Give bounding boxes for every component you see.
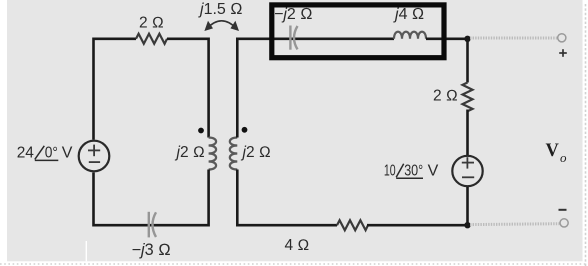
polarity dot (secondary) xyxy=(242,127,248,133)
wire 4ohm resistor to bottom-right node xyxy=(367,224,468,227)
capacitor −j2Ω xyxy=(290,26,297,50)
svg-text:o: o xyxy=(560,150,567,165)
highlight rectangle annotation xyxy=(272,5,444,58)
svg-text:4 Ω: 4 Ω xyxy=(285,237,310,254)
scan artifact white line bottom-left xyxy=(86,241,87,261)
resistor 2Ω (top left) xyxy=(136,34,167,44)
svg-text:30°: 30° xyxy=(404,162,423,179)
svg-text:V: V xyxy=(62,145,73,162)
svg-text:−j2 Ω: −j2 Ω xyxy=(274,6,313,23)
capacitor -j3Ω xyxy=(149,212,156,238)
wire secondary winding bottom to bottom wire xyxy=(237,170,337,226)
wire primary winding bottom to bottom-left corner up to source xyxy=(94,170,209,226)
label 10∠30° V xyxy=(384,162,439,179)
svg-text:j2 Ω: j2 Ω xyxy=(175,144,205,161)
voltage source 24∠0°V circle xyxy=(79,141,110,172)
node bottom-right junction xyxy=(464,222,470,228)
svg-text:j2 Ω: j2 Ω xyxy=(241,144,271,161)
svg-text:24: 24 xyxy=(17,145,34,162)
wire 10V source to bottom-right node xyxy=(466,187,469,225)
svg-text:10: 10 xyxy=(384,162,396,179)
mutual coupling j1.5Ω arc arrow xyxy=(207,21,237,29)
page edge line right xyxy=(585,4,587,266)
label 24∠0° V xyxy=(17,145,73,162)
inductor j2Ω primary winding xyxy=(209,138,217,170)
angle symbol for 10V label xyxy=(396,164,423,179)
svg-text:2 Ω: 2 Ω xyxy=(433,88,458,105)
resistor 4Ω (bottom) xyxy=(337,220,368,230)
inductor j2Ω secondary winding xyxy=(230,138,238,170)
terminal circle + xyxy=(558,34,566,42)
wire node down to 2ohm resistor xyxy=(466,39,469,83)
resistor 2Ω (right vertical) xyxy=(463,83,473,112)
dotted lead to − terminal xyxy=(470,222,560,226)
minus terminal sign xyxy=(559,209,567,211)
plus sign inside 24V source xyxy=(88,145,100,163)
plus terminal sign xyxy=(559,49,567,57)
plus sign inside 10V source xyxy=(462,157,474,177)
page edge dotted line bottom xyxy=(0,263,588,265)
voltage source 10∠30°V circle xyxy=(452,156,482,186)
terminal circle − xyxy=(560,219,568,227)
angle symbol for 24V label xyxy=(35,146,59,161)
inductor j4Ω xyxy=(394,32,426,39)
wire resistor to 10V source xyxy=(466,110,469,156)
svg-text:V: V xyxy=(546,141,560,161)
wire left loop top: source to 2ohm resistor xyxy=(94,39,137,140)
svg-text:2 Ω: 2 Ω xyxy=(139,15,164,32)
wire from 2ohm resistor to primary winding top xyxy=(167,39,209,138)
polarity dot (primary) xyxy=(198,128,204,134)
svg-text:j4 Ω: j4 Ω xyxy=(393,6,424,23)
svg-text:0°: 0° xyxy=(45,145,58,162)
wire secondary top to j4 inductor xyxy=(237,39,394,138)
node top-right junction xyxy=(464,36,470,42)
wire j4 inductor to top-right node xyxy=(426,37,468,40)
svg-text:V: V xyxy=(428,162,439,179)
dotted lead to + terminal xyxy=(470,37,558,40)
svg-text:−j3 Ω: −j3 Ω xyxy=(132,241,171,259)
svg-text:j1.5 Ω: j1.5 Ω xyxy=(198,1,243,18)
